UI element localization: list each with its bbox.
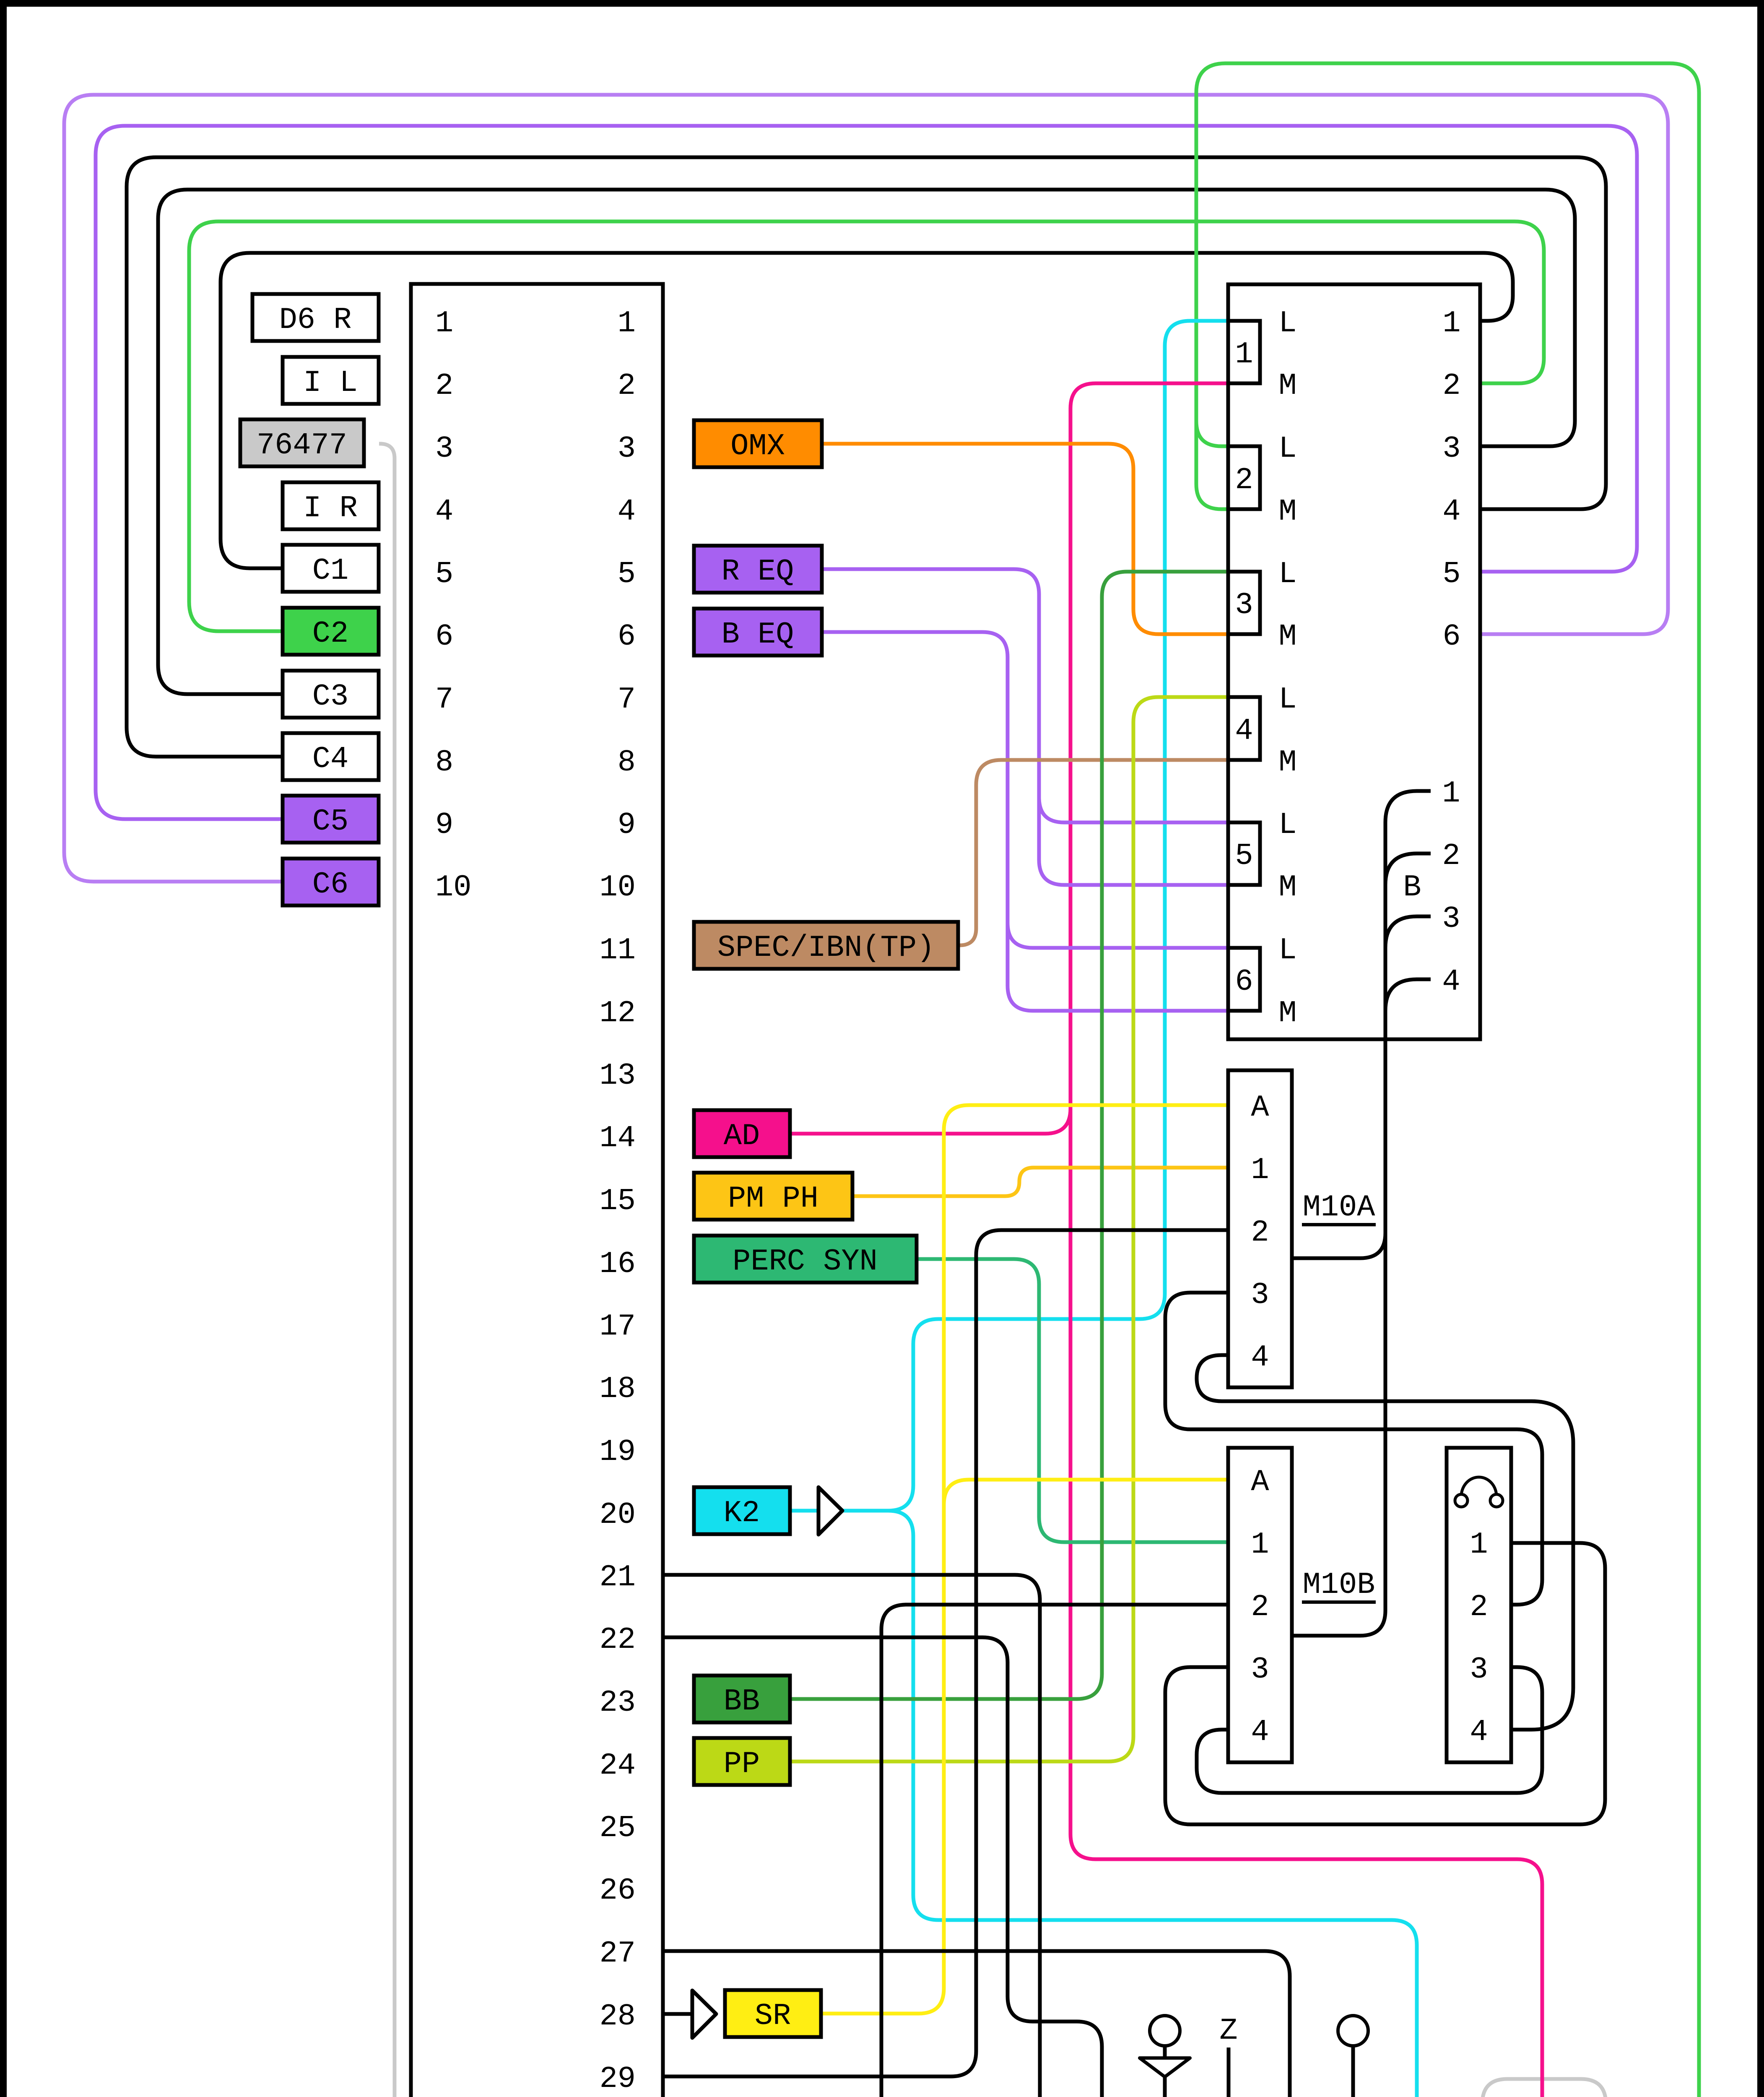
headphone icon (1461, 1477, 1496, 1496)
svg-text:A: A (1251, 1090, 1269, 1125)
box C4 (283, 733, 379, 780)
svg-text:M: M (1278, 870, 1296, 905)
box 76477 (240, 419, 364, 466)
wire cyan K2 to right-box node 1L (842, 321, 1228, 1511)
input box 5 (1228, 822, 1260, 885)
svg-text:B EQ: B EQ (722, 617, 794, 652)
node B3 arc (1385, 916, 1431, 948)
box R EQ (694, 546, 822, 593)
input box 2 (1228, 446, 1260, 509)
svg-text:L: L (1278, 933, 1296, 968)
wire purple R EQ to input box 5 (nodes 5L,5M) (822, 569, 1228, 885)
wire purple R EQ branch node 5L (1039, 797, 1228, 822)
svg-text:5: 5 (1442, 557, 1460, 591)
svg-text:4: 4 (1442, 965, 1460, 999)
box PERC SYN (694, 1236, 917, 1283)
svg-text:4: 4 (618, 494, 636, 529)
svg-text:6: 6 (1235, 965, 1253, 999)
svg-text:1: 1 (1470, 1527, 1488, 1562)
svg-text:10: 10 (600, 870, 636, 905)
wire pink AD to right-box node 1M and MM pin 4 (1070, 383, 1542, 2097)
svg-text:C4: C4 (312, 742, 348, 776)
svg-text:1: 1 (1251, 1153, 1269, 1187)
svg-text:4: 4 (1235, 714, 1253, 748)
wire C4 loop (black, C4 to right-box pin 4) (127, 157, 1606, 757)
svg-text:2: 2 (1251, 1215, 1269, 1250)
svg-text:3: 3 (1442, 432, 1460, 466)
box C1 (283, 545, 379, 592)
input box 3 (1228, 572, 1260, 634)
svg-text:R EQ: R EQ (722, 554, 794, 589)
wire row 30 to M10B pin 2 (663, 1605, 1228, 2097)
svg-text:11: 11 (600, 933, 636, 968)
box BB (694, 1676, 790, 1722)
svg-text:D6 R: D6 R (279, 303, 352, 337)
svg-text:3: 3 (435, 432, 453, 466)
svg-text:3: 3 (618, 432, 636, 466)
svg-text:2: 2 (1442, 369, 1460, 403)
svg-text:M10B: M10B (1303, 1568, 1375, 1602)
svg-text:I R: I R (303, 491, 358, 526)
wire C1 loop (black, C1 to right-box pin 1) (221, 253, 1513, 568)
svg-text:K2: K2 (724, 1496, 760, 1530)
svg-text:PM PH: PM PH (728, 1181, 818, 1216)
svg-text:9: 9 (435, 808, 453, 842)
svg-text:22: 22 (600, 1623, 636, 1657)
node B2 arc (1385, 853, 1431, 885)
input box 4 (1228, 697, 1260, 760)
svg-text:27: 27 (600, 1936, 636, 1971)
svg-text:M: M (1278, 494, 1296, 529)
svg-text:10: 10 (435, 870, 471, 905)
input box 1 (1228, 321, 1260, 383)
svg-text:5: 5 (435, 557, 453, 591)
box K2 (694, 1487, 790, 1534)
svg-text:3: 3 (1235, 588, 1253, 622)
svg-text:L: L (1278, 682, 1296, 717)
right mixer box (1228, 284, 1480, 1039)
svg-text:15: 15 (600, 1184, 636, 1218)
wire D loop (green, D box around page to right-box input box 2) (1166, 63, 1699, 2097)
box C6 (283, 859, 379, 905)
antenna above DM pin 4 (1163, 2077, 1167, 2097)
svg-text:SR: SR (755, 1999, 791, 2033)
box AD (694, 1110, 790, 1157)
svg-text:28: 28 (600, 1999, 636, 2034)
wire M10B pin 4 to headphone pin 3 (1197, 1667, 1542, 1793)
svg-text:25: 25 (600, 1811, 636, 1845)
box C2 (283, 608, 379, 655)
svg-text:1: 1 (435, 306, 453, 341)
svg-text:PERC SYN: PERC SYN (733, 1244, 878, 1279)
box C3 (283, 671, 379, 718)
svg-text:6: 6 (435, 619, 453, 654)
svg-text:8: 8 (618, 745, 636, 780)
svg-text:M: M (1278, 996, 1296, 1030)
box SR (725, 1990, 821, 2037)
svg-text:1: 1 (618, 306, 636, 341)
headphone box (1447, 1448, 1511, 1762)
box C5 (283, 796, 379, 843)
svg-text:5: 5 (1235, 839, 1253, 873)
wire cyan K2 branch down to MM pin 2 (888, 1511, 1417, 2097)
svg-text:1: 1 (1442, 776, 1460, 811)
svg-text:4: 4 (1251, 1715, 1269, 1749)
node B4 arc (1385, 979, 1431, 1011)
wire row 21 to DM pin 2 (663, 1575, 1040, 2097)
svg-text:C2: C2 (312, 617, 348, 651)
box I R (283, 482, 379, 529)
svg-text:6: 6 (618, 619, 636, 654)
svg-text:13: 13 (600, 1059, 636, 1093)
svg-text:17: 17 (600, 1309, 636, 1344)
svg-text:2: 2 (1470, 1590, 1488, 1624)
svg-text:L: L (1278, 432, 1296, 466)
box PP (694, 1738, 790, 1785)
svg-text:20: 20 (600, 1498, 636, 1532)
svg-text:16: 16 (600, 1247, 636, 1281)
box PM PH (694, 1173, 852, 1220)
svg-text:M10A: M10A (1303, 1190, 1376, 1225)
box OMX (694, 420, 822, 467)
svg-text:I L: I L (303, 366, 358, 400)
wire yellow SR to M10A pin A (821, 1105, 1228, 2014)
svg-text:4: 4 (435, 494, 453, 529)
svg-text:3: 3 (1442, 902, 1460, 936)
svg-text:7: 7 (435, 682, 453, 717)
wire 76477 gray loop to MM pin 3 (379, 444, 1606, 2097)
wire D loop branch into input box 2 top (node 2L) (1196, 421, 1228, 446)
svg-text:1: 1 (1251, 1527, 1269, 1562)
wire row 27 to DM pin 6 (663, 1951, 1290, 2097)
svg-text:1: 1 (1442, 306, 1460, 341)
svg-text:SPEC/IBN(TP): SPEC/IBN(TP) (717, 931, 935, 965)
wire yellow SR branch to M10B pin A (944, 1480, 1228, 1505)
wire yellow-green PP to right-box node 4L (790, 697, 1228, 1761)
buffer triangle after K2 (818, 1487, 842, 1535)
svg-text:7: 7 (618, 682, 636, 717)
svg-text:76477: 76477 (257, 428, 347, 463)
svg-text:A: A (1251, 1465, 1269, 1499)
M10B box (1228, 1448, 1292, 1762)
svg-text:4: 4 (1442, 494, 1460, 529)
wire forest-green BB to right-box node 3L (790, 572, 1228, 1699)
buffer triangle before SR (692, 1990, 716, 2038)
wire orange OMX to right-box node 3M (822, 444, 1228, 634)
wire B bus vertical (B arcs to M10A/M10B right pins) (1292, 822, 1385, 1636)
svg-text:8: 8 (435, 745, 453, 780)
svg-text:2: 2 (1442, 839, 1460, 873)
svg-text:L: L (1278, 808, 1296, 842)
svg-text:3: 3 (1251, 1652, 1269, 1687)
svg-text:AD: AD (724, 1119, 760, 1153)
svg-text:3: 3 (1470, 1652, 1488, 1687)
wire C6 loop (light purple, C6 to right-box pin 6) (64, 95, 1668, 882)
svg-text:1: 1 (1235, 337, 1253, 372)
svg-text:Z: Z (1219, 2014, 1237, 2048)
M10A box (1228, 1070, 1292, 1387)
svg-text:L: L (1278, 306, 1296, 341)
wire brown SPEC/IBN(TP) to right-box node 4M (958, 760, 1228, 945)
svg-text:21: 21 (600, 1560, 636, 1595)
wire C2 loop (green, C2 to right-box pin 2) (189, 221, 1544, 631)
wire amber PM PH to M10A pin 1 (852, 1168, 1228, 1196)
svg-text:2: 2 (1235, 463, 1253, 497)
svg-text:12: 12 (600, 996, 636, 1030)
svg-text:2: 2 (1251, 1590, 1269, 1624)
box I L (283, 357, 379, 404)
box SPEC/IBN(TP) (694, 922, 958, 969)
svg-text:C1: C1 (312, 554, 348, 588)
svg-text:24: 24 (600, 1748, 636, 1783)
node B1 arc (1385, 791, 1431, 822)
svg-text:PP: PP (724, 1747, 760, 1781)
svg-text:18: 18 (600, 1372, 636, 1406)
svg-text:29: 29 (600, 2062, 636, 2096)
wire purple B EQ branch node 6L (1008, 923, 1228, 948)
svg-text:B: B (1403, 870, 1421, 905)
svg-text:M: M (1278, 745, 1296, 780)
svg-text:OMX: OMX (730, 429, 785, 463)
box D6 R (252, 294, 379, 341)
wire row 28 stub to buffer (663, 2012, 692, 2016)
wire purple B EQ to input box 6 (nodes 6L,6M) (822, 632, 1228, 1011)
svg-text:4: 4 (1470, 1715, 1488, 1749)
wire M10A pin 3 to headphone pin 2 (1165, 1293, 1542, 1605)
svg-text:2: 2 (618, 369, 636, 403)
svg-text:4: 4 (1251, 1340, 1269, 1375)
svg-text:26: 26 (600, 1873, 636, 1908)
wire row 22 to DM pin 3 (663, 1637, 1102, 2097)
svg-text:C6: C6 (312, 867, 348, 902)
svg-text:19: 19 (600, 1435, 636, 1469)
svg-text:5: 5 (618, 557, 636, 591)
svg-text:6: 6 (1442, 619, 1460, 654)
wire M10A pin 4 to headphone pin 4 (1197, 1355, 1573, 1730)
svg-text:BB: BB (724, 1684, 760, 1719)
big patch box 1-30 (411, 284, 663, 2097)
svg-text:9: 9 (618, 808, 636, 842)
mic symbol above MM pin 1 (1351, 2046, 1355, 2097)
wire jade PERC SYN to M10B pin 1 (917, 1259, 1228, 1542)
wire M10B pin 3 to headphone pin 1 (1165, 1543, 1605, 1824)
svg-text:3: 3 (1251, 1278, 1269, 1312)
svg-text:C3: C3 (312, 679, 348, 714)
svg-text:14: 14 (600, 1121, 636, 1155)
svg-text:2: 2 (435, 369, 453, 403)
wire C5 loop (purple, C5 to right-box pin 5) (96, 126, 1637, 819)
svg-text:M: M (1278, 369, 1296, 403)
wire cyan K2 stub to buffer (790, 1509, 818, 1513)
box B EQ (694, 609, 822, 656)
wire M10A right stub to B bus (1292, 1233, 1385, 1258)
svg-text:L: L (1278, 557, 1296, 591)
wire row 29 to M10A pin 2 (663, 1230, 1228, 2076)
svg-text:C5: C5 (312, 804, 348, 839)
svg-text:23: 23 (600, 1686, 636, 1720)
wire C3 loop (black, C3 to right-box pin 3) (158, 190, 1575, 694)
input box 6 (1228, 948, 1260, 1011)
svg-text:M: M (1278, 619, 1296, 654)
wire pink AD branch junction (790, 1108, 1070, 1134)
